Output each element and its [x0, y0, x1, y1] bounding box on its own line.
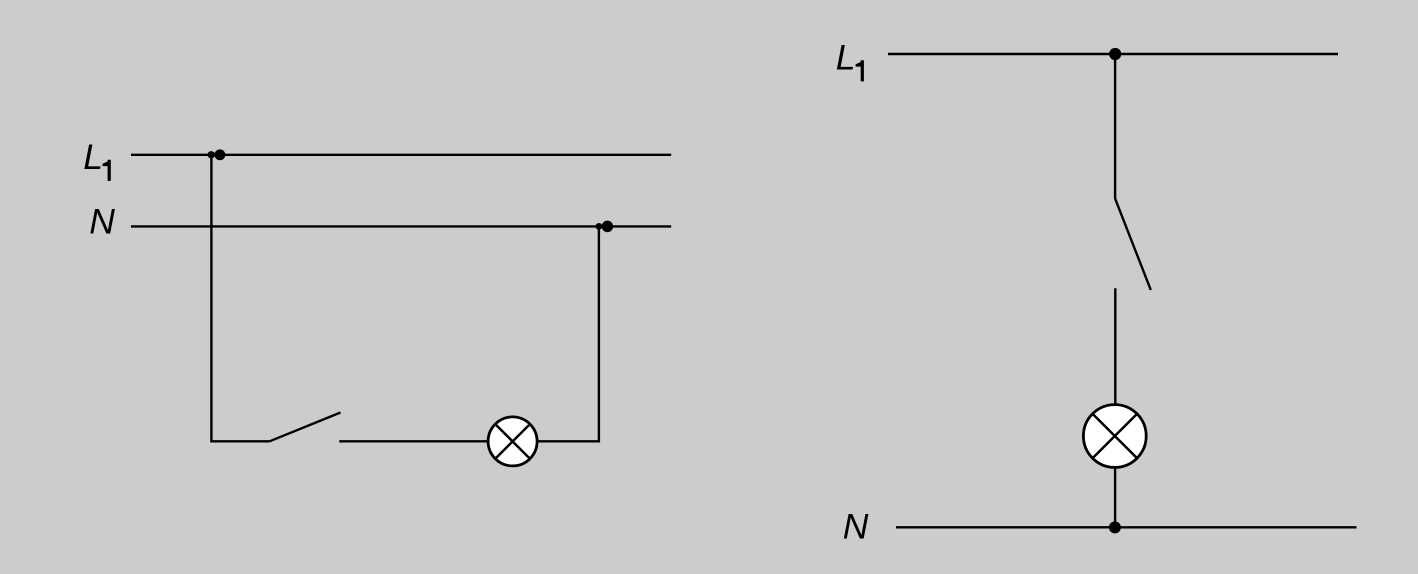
wire N horizontal line (left circuit): [131, 225, 671, 227]
junction dot small on N (left circuit): [596, 223, 603, 230]
junction dot large on N (left circuit): [602, 221, 614, 233]
node L1 label (right circuit): [836, 37, 864, 81]
svg-text:N: N: [843, 506, 869, 546]
svg-text:N: N: [89, 202, 115, 242]
lamp E2 (right circuit): [1083, 405, 1146, 468]
wire from L1 junction down and right to switch hinge (left circuit): [211, 155, 269, 442]
wire from switch to lamp (left circuit): [339, 440, 489, 442]
junction dot large on L1 (left circuit): [214, 149, 225, 160]
wire from switch down to lamp (right circuit): [1114, 288, 1116, 405]
wire from L1 junction down to switch (right circuit): [1114, 54, 1116, 199]
lamp E1 (left circuit): [488, 417, 537, 466]
svg-text:L: L: [83, 137, 103, 177]
wire N horizontal line (right circuit): [896, 526, 1357, 528]
junction dot on N (right circuit): [1109, 521, 1121, 533]
node L1 label (left circuit): [83, 137, 111, 181]
switch S1 blade (left circuit, open): [270, 413, 341, 442]
junction dot small on L1 (left circuit): [208, 151, 215, 158]
junction dot on L1 (right circuit): [1109, 48, 1121, 60]
wire from lamp down to N junction (right circuit): [1114, 467, 1116, 527]
svg-text:L: L: [836, 37, 856, 77]
switch S2 blade (right circuit, open): [1115, 199, 1151, 290]
wire L1 horizontal line (right circuit): [888, 53, 1338, 55]
wire L1 horizontal line (left circuit): [131, 154, 671, 156]
wire from lamp up to N junction (left circuit): [537, 226, 599, 441]
